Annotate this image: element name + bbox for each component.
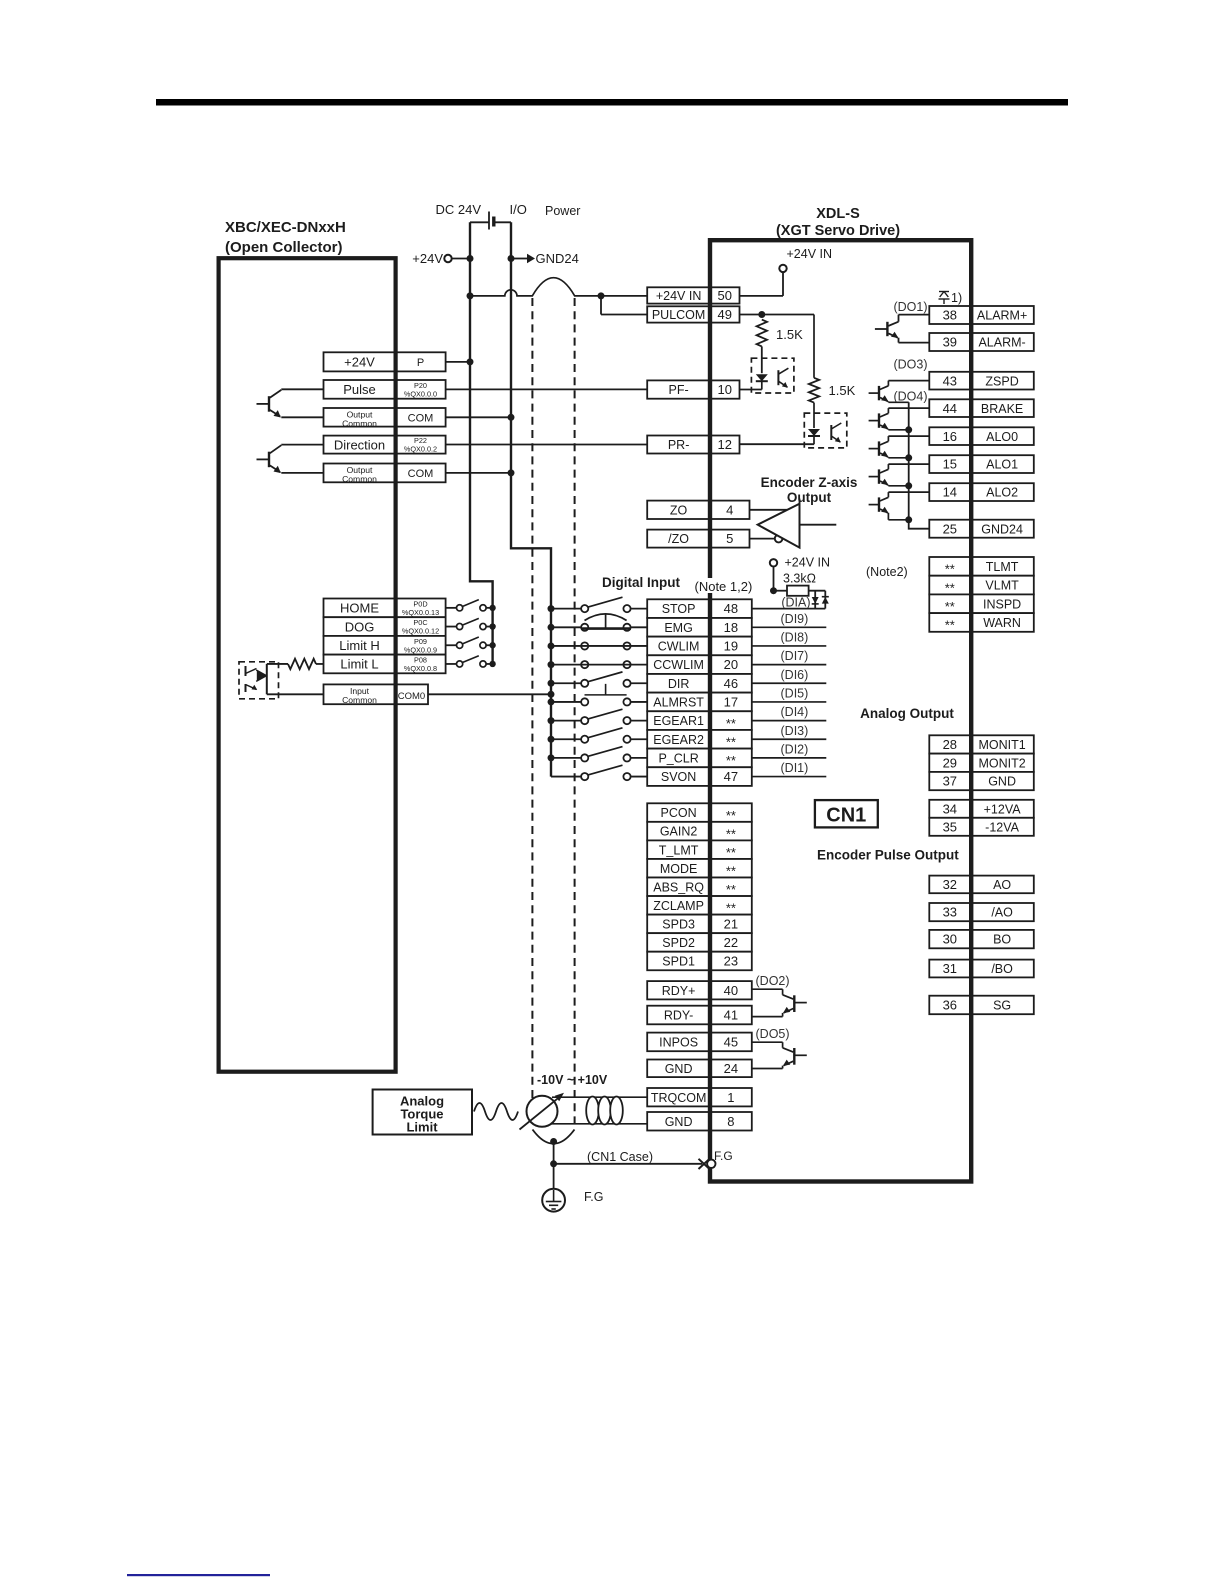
transistor Q3 (DO1 ALARM): [875, 315, 929, 343]
svg-text:1.5K: 1.5K: [829, 383, 856, 398]
servo pin box T_LMT **: [647, 840, 752, 859]
junction dot digital 24V: [770, 587, 777, 594]
switch EGEAR1: [551, 709, 647, 724]
svg-text:**: **: [726, 863, 736, 878]
transistor Q8 (ALO2): [869, 492, 930, 520]
svg-text:(DO3): (DO3): [893, 358, 927, 372]
servo pin box 16 ALO0: [929, 427, 1034, 445]
wire P to +24V rail: [446, 361, 470, 363]
wire rail +24V (left): [470, 222, 493, 664]
switch SVON: [551, 765, 647, 780]
servo pin box 28 MONIT1: [929, 735, 1034, 753]
svg-text:Limit: Limit: [406, 1120, 438, 1135]
svg-text:Limit L: Limit L: [340, 657, 378, 672]
PLC pin box Input Common / COM0: [324, 684, 429, 704]
svg-text:COM0: COM0: [398, 691, 425, 702]
svg-text:16: 16: [943, 429, 957, 444]
svg-text:TRQCOM: TRQCOM: [651, 1091, 707, 1105]
junction dot switch bus DOG: [489, 623, 495, 629]
svg-text:8: 8: [727, 1114, 734, 1129]
page bottom rule (blue): [127, 1574, 270, 1576]
servo pin box EGEAR2 **: [647, 730, 752, 749]
svg-text:COM: COM: [408, 413, 434, 425]
svg-text:37: 37: [943, 774, 957, 789]
svg-text:(DI3): (DI3): [781, 724, 809, 738]
svg-text:/BO: /BO: [991, 962, 1013, 976]
PLC pin box Limit L / P08: [324, 655, 446, 674]
servo pin box 30 BO: [929, 930, 1034, 948]
wire COM0 to bus: [428, 693, 551, 695]
svg-text:Direction: Direction: [334, 437, 385, 452]
wire digital input row 1 right: [752, 608, 826, 610]
svg-text:XDL-S: XDL-S: [816, 206, 860, 222]
wire GND24 arrow: [511, 258, 527, 260]
wire pin 50 to +24V IN terminal: [740, 295, 784, 297]
servo pin box +24V IN 50: [647, 287, 739, 303]
svg-text:Encoder Z-axis: Encoder Z-axis: [761, 475, 858, 490]
servo pin box 31 /BO: [929, 960, 1034, 978]
svg-text:50: 50: [718, 288, 732, 303]
svg-text:GAIN2: GAIN2: [660, 825, 698, 839]
junction dot emitter bus: [905, 516, 912, 523]
svg-text:GND: GND: [665, 1062, 693, 1076]
svg-text:Common: Common: [342, 474, 377, 484]
svg-text:RDY+: RDY+: [662, 984, 696, 998]
svg-text:(DI9): (DI9): [781, 612, 809, 626]
wire digital input row 6 right: [752, 701, 827, 703]
servo pin box 25 GND24: [929, 520, 1034, 538]
svg-text:1.5K: 1.5K: [776, 327, 803, 342]
svg-text:GND24: GND24: [536, 251, 579, 266]
Analog Torque Limit box: [373, 1090, 472, 1135]
svg-text:/AO: /AO: [991, 906, 1013, 920]
svg-text:STOP: STOP: [662, 602, 696, 616]
wire Direction to PR-: [446, 444, 648, 446]
wire PR- to PC2: [740, 443, 815, 445]
junction dot emitter bus: [905, 454, 912, 461]
svg-text:48: 48: [724, 601, 738, 616]
svg-text:**: **: [726, 753, 736, 768]
svg-text:(DI7): (DI7): [781, 649, 809, 663]
servo pin box /ZO 5: [647, 530, 749, 548]
optocoupler PC1 (PF-): [751, 358, 794, 393]
servo pin box ** TLMT: [929, 557, 1034, 576]
switch Limit L: [446, 656, 493, 667]
junction dot emitter bus: [905, 426, 912, 433]
svg-text:35: 35: [943, 819, 957, 834]
svg-text:MODE: MODE: [660, 862, 698, 876]
svg-text:(DI2): (DI2): [781, 742, 809, 756]
wire emitter bus to GND24 pin 25: [909, 402, 930, 528]
wire PF- to PC1: [740, 389, 762, 391]
svg-text:%QX0.0.12: %QX0.0.12: [402, 627, 439, 636]
servo pin box PCON **: [647, 803, 752, 822]
svg-text:ALO1: ALO1: [986, 458, 1018, 472]
battery DC24V wires: [470, 221, 489, 223]
svg-text:+12VA: +12VA: [984, 802, 1022, 816]
junction dot bus row 1: [548, 605, 555, 612]
svg-text:(DI8): (DI8): [781, 630, 809, 644]
svg-text:28: 28: [943, 737, 957, 752]
junction dot bus row 4: [548, 661, 555, 668]
svg-text:19: 19: [724, 639, 738, 654]
svg-text:(DI4): (DI4): [781, 705, 809, 719]
wire PULCOM out: [740, 314, 815, 316]
junction dot +24V rail: [467, 255, 474, 262]
svg-text:CN1: CN1: [826, 804, 866, 826]
svg-text:(DO5): (DO5): [756, 1027, 790, 1041]
junction dot FG branch: [550, 1160, 557, 1167]
svg-text:+24V IN: +24V IN: [656, 289, 702, 303]
svg-text:5: 5: [726, 531, 733, 546]
svg-text:ALMRST: ALMRST: [653, 696, 704, 710]
svg-text:SPD1: SPD1: [662, 955, 695, 969]
svg-text:I/O: I/O: [510, 202, 527, 217]
svg-text:P: P: [417, 357, 424, 369]
transistor Q4 (ZSPD): [869, 381, 930, 403]
svg-text:CWLIM: CWLIM: [658, 640, 700, 654]
switch Limit H: [446, 637, 493, 648]
cable screen dashed line right: [574, 298, 576, 1129]
servo pin box PF- 10: [647, 380, 739, 398]
battery plate short: [492, 217, 495, 227]
svg-text:BRAKE: BRAKE: [981, 402, 1023, 416]
PLC pin box Output Common / COM 1: [324, 408, 446, 427]
junction dot COM1: [508, 414, 515, 421]
battery plate long: [488, 212, 490, 230]
servo pin box 43 ZSPD: [929, 372, 1034, 390]
servo pin box 39 ALARM-: [929, 333, 1034, 351]
servo pin box 37 GND: [929, 772, 1034, 790]
svg-text:ZCLAMP: ZCLAMP: [653, 899, 704, 913]
analog signal squiggle: [474, 1103, 518, 1120]
svg-text:+24V IN: +24V IN: [785, 556, 831, 570]
svg-text:COM: COM: [408, 468, 434, 480]
servo pin box PR- 12: [647, 436, 739, 454]
svg-text:SVON: SVON: [661, 770, 696, 784]
servo pin box STOP 48: [647, 599, 752, 618]
servo pin box SVON 47: [647, 767, 752, 786]
servo pin box INPOS 45: [647, 1033, 752, 1052]
svg-text:EGEAR2: EGEAR2: [653, 733, 704, 747]
wire digital input row 9 right: [752, 757, 827, 759]
junction dot bus row 6: [548, 698, 555, 705]
connector label CN1 box: [815, 800, 878, 827]
servo pin box EMG 18: [647, 618, 752, 637]
wire digital input row 4 right: [752, 664, 827, 666]
servo pin box SPD3 21: [647, 915, 752, 934]
switch CWLIM (closed): [551, 642, 647, 649]
svg-text:**: **: [726, 845, 736, 860]
svg-text:1): 1): [951, 291, 962, 305]
svg-text:ALARM+: ALARM+: [977, 309, 1027, 323]
svg-text:**: **: [726, 808, 736, 823]
svg-text:TLMT: TLMT: [986, 560, 1019, 574]
switch HOME: [446, 600, 493, 611]
svg-text:45: 45: [724, 1035, 738, 1050]
svg-text:GND: GND: [665, 1115, 693, 1129]
svg-text:DOG: DOG: [345, 619, 375, 634]
servo pin box CWLIM 19: [647, 637, 752, 656]
line driver U1 triangle: [758, 504, 800, 548]
svg-text:GND24: GND24: [981, 522, 1023, 536]
svg-text:Analog Output: Analog Output: [860, 706, 954, 721]
svg-text:Common: Common: [342, 418, 377, 428]
svg-text:ZO: ZO: [670, 503, 688, 517]
cable screen dashed line left: [531, 298, 533, 1099]
servo pin box P_CLR **: [647, 749, 752, 768]
svg-text:%QX0.0.9: %QX0.0.9: [404, 645, 437, 654]
label (Note 1,2): [692, 578, 756, 593]
svg-text:ABS_RQ: ABS_RQ: [653, 880, 704, 894]
svg-text:41: 41: [724, 1008, 738, 1023]
svg-text:HOME: HOME: [340, 601, 379, 616]
junction dot COM0: [548, 691, 555, 698]
svg-text:INSPD: INSPD: [983, 597, 1021, 611]
svg-text:MONIT2: MONIT2: [978, 756, 1025, 770]
servo pin box 33 /AO: [929, 903, 1034, 921]
svg-text:**: **: [945, 580, 955, 595]
resistor R4 (Limit L): [288, 659, 316, 669]
junction dot bus row 3: [548, 642, 555, 649]
servo pin box ZO 4: [647, 501, 749, 519]
svg-text:**: **: [945, 618, 955, 633]
switch P_CLR: [551, 747, 647, 762]
wire R1 to opto: [761, 346, 763, 373]
svg-text:SG: SG: [993, 999, 1011, 1013]
wire driver output: [800, 524, 837, 526]
servo pin box RDY- 41: [647, 1006, 752, 1025]
servo pin box EGEAR1 **: [647, 711, 752, 730]
svg-text:(DO1): (DO1): [893, 300, 927, 314]
svg-text:24: 24: [724, 1061, 738, 1076]
svg-text:EMG: EMG: [664, 621, 692, 635]
wire PULCOM right branch down: [813, 315, 815, 378]
transistor Q6 (ALO0): [869, 436, 930, 458]
inverter bubble /ZO: [775, 535, 783, 543]
svg-text:GND: GND: [988, 775, 1016, 789]
switch CCWLIM (closed): [551, 661, 647, 668]
svg-text:(Note2): (Note2): [866, 565, 908, 579]
junction dot PULCOM: [758, 311, 765, 318]
svg-text:(DI6): (DI6): [781, 668, 809, 682]
svg-text:30: 30: [943, 932, 957, 947]
wire opto to Input Common: [267, 693, 324, 695]
junction dot switch bus Limit L: [489, 661, 495, 667]
junction dot bus row 2: [548, 624, 555, 631]
optocoupler PC3 (PLC input): [239, 662, 288, 699]
svg-text:INPOS: INPOS: [659, 1036, 698, 1050]
junction dot bus row 7: [548, 717, 555, 724]
wire PULCOM branch: [600, 296, 602, 315]
switch STOP: [551, 597, 647, 612]
wire digital input row 7 right: [752, 720, 827, 722]
svg-text:22: 22: [724, 935, 738, 950]
servo pin box ALMRST 17: [647, 693, 752, 712]
PLC enclosure XBC/XEC box: [219, 258, 396, 1071]
svg-text:(Open Collector): (Open Collector): [225, 239, 343, 256]
servo pin box PULCOM 49: [647, 306, 739, 322]
potentiometer VR1: [520, 1093, 565, 1130]
transistor Q10 (DO5 INPOS): [752, 1042, 807, 1068]
svg-text:-10V ~ +10V: -10V ~ +10V: [537, 1073, 608, 1087]
svg-text:**: **: [726, 734, 736, 749]
transistor Q9 (DO2 RDY): [752, 989, 807, 1016]
svg-text:43: 43: [943, 373, 957, 388]
servo pin box 44 BRAKE: [929, 399, 1034, 417]
servo pin box ** VLMT: [929, 576, 1034, 595]
svg-text:Power: Power: [545, 204, 580, 218]
svg-text:MONIT1: MONIT1: [978, 738, 1025, 752]
switch ALMRST (pushbutton): [551, 698, 647, 705]
wire pot to TRQCOM: [552, 1096, 647, 1098]
svg-text:(DIA): (DIA): [781, 596, 810, 610]
svg-text:P_CLR: P_CLR: [658, 752, 698, 766]
servo pin box ** WARN: [929, 613, 1034, 632]
svg-text:DC 24V: DC 24V: [435, 202, 481, 217]
svg-text:WARN: WARN: [983, 616, 1021, 630]
servo enclosure XDL-S box: [710, 240, 971, 1181]
svg-text:+24V: +24V: [412, 251, 443, 266]
svg-text:Digital Input: Digital Input: [602, 575, 680, 590]
wire shield to ground: [553, 1141, 555, 1189]
svg-text:F.G: F.G: [714, 1149, 733, 1163]
twisted pair loops: [586, 1097, 623, 1125]
wire ZO to driver: [750, 509, 788, 511]
svg-text:**: **: [726, 716, 736, 731]
resistor R1 1.5K: [757, 320, 767, 347]
svg-text:Pulse: Pulse: [343, 382, 376, 397]
svg-text:32: 32: [943, 877, 957, 892]
wire digital 24V down: [773, 567, 775, 591]
junction dot emitter bus: [905, 482, 912, 489]
PLC pin box DOG / P0C: [324, 617, 446, 636]
wire digital input row 5 right: [752, 682, 827, 684]
servo pin box 34 +12VA: [929, 800, 1034, 818]
svg-text:(XGT Servo Drive): (XGT Servo Drive): [776, 223, 900, 239]
switch DOG: [446, 618, 493, 629]
junction dot switch bus HOME: [489, 605, 495, 611]
svg-text:DIR: DIR: [668, 677, 690, 691]
svg-text:10: 10: [718, 382, 732, 397]
svg-text:20: 20: [724, 657, 738, 672]
svg-text:21: 21: [724, 916, 738, 931]
wire +24V to rail: [452, 258, 470, 260]
earth ground FG symbol: [542, 1189, 565, 1212]
svg-text:Limit H: Limit H: [339, 638, 379, 653]
svg-text:ALARM-: ALARM-: [978, 336, 1025, 350]
wire +24V IN feed with hop and cable loop: [470, 278, 647, 296]
svg-text:ZSPD: ZSPD: [985, 374, 1018, 388]
svg-text:(DO4): (DO4): [893, 390, 927, 404]
svg-text:12: 12: [718, 437, 732, 452]
servo pin box CCWLIM 20: [647, 655, 752, 674]
svg-text:18: 18: [724, 620, 738, 635]
switch EMG (mushroom NC): [551, 614, 647, 631]
svg-text:**: **: [726, 901, 736, 916]
svg-text:Output: Output: [787, 490, 832, 505]
FG terminal circle on servo border: [707, 1160, 715, 1168]
svg-text:**: **: [726, 826, 736, 841]
svg-text:SPD3: SPD3: [662, 917, 695, 931]
svg-text:40: 40: [724, 983, 738, 998]
label 주1): [939, 291, 963, 305]
switch EGEAR2: [551, 728, 647, 743]
svg-text:33: 33: [943, 905, 957, 920]
servo pin box SPD2 22: [647, 933, 752, 952]
junction dot bus row 8: [548, 736, 555, 743]
svg-text:CCWLIM: CCWLIM: [653, 658, 704, 672]
svg-text:(Note 1,2): (Note 1,2): [695, 579, 753, 594]
terminal +24V IN circle: [779, 265, 786, 272]
servo pin box ABS_RQ **: [647, 878, 752, 897]
svg-text:+24V: +24V: [344, 355, 375, 370]
servo pin box GND 8: [647, 1112, 752, 1131]
servo pin box 38 ALARM+: [929, 306, 1034, 324]
servo pin box ZCLAMP **: [647, 896, 752, 915]
transistor Q7 (ALO1): [869, 464, 930, 486]
svg-text:/ZO: /ZO: [668, 532, 689, 546]
terminal +24V IN (digital) circle: [770, 559, 777, 566]
servo pin box GAIN2 **: [647, 822, 752, 841]
svg-text:49: 49: [718, 307, 732, 322]
resistor R2 1.5K: [809, 378, 819, 403]
svg-text:34: 34: [943, 801, 957, 816]
wire to R3: [774, 590, 788, 592]
svg-text:25: 25: [943, 521, 957, 536]
servo pin box 36 SG: [929, 996, 1034, 1015]
svg-text:31: 31: [943, 961, 957, 976]
svg-text:46: 46: [724, 676, 738, 691]
wire FG to CN1 case: [554, 1163, 702, 1165]
wire digital input row 3 right: [752, 645, 827, 647]
terminal +24V circle: [444, 255, 451, 262]
servo pin box 15 ALO1: [929, 455, 1034, 473]
svg-text:44: 44: [943, 401, 957, 416]
svg-text:%QX0.0.8: %QX0.0.8: [404, 664, 437, 673]
servo pin box SPD1 23: [647, 952, 752, 971]
wire digital input row 10 right: [752, 776, 827, 778]
PLC pin box +24V / P: [324, 352, 446, 371]
svg-text:23: 23: [724, 954, 738, 969]
junction dot feed at rail: [467, 292, 474, 299]
svg-text:17: 17: [724, 695, 738, 710]
wire rail GND24 (right): [511, 222, 551, 776]
servo pin box 14 ALO2: [929, 483, 1034, 501]
svg-text:+24V IN: +24V IN: [787, 247, 833, 261]
junction dot bus row 9: [548, 754, 555, 761]
svg-text:EGEAR1: EGEAR1: [653, 714, 704, 728]
servo pin box RDY+ 40: [647, 981, 752, 999]
wire digital input row 2 right: [752, 626, 827, 628]
junction dot GND24 rail: [508, 255, 515, 262]
svg-text:47: 47: [724, 769, 738, 784]
svg-text:14: 14: [943, 485, 957, 500]
svg-text:PF-: PF-: [669, 383, 689, 397]
svg-text:%QX0.0.2: %QX0.0.2: [404, 445, 437, 454]
svg-text:(DI1): (DI1): [781, 761, 809, 775]
wire R2 to opto: [813, 403, 815, 428]
servo pin box 29 MONIT2: [929, 754, 1034, 772]
driver top stub: [799, 499, 801, 504]
transistor Q2 (Direction open collector): [257, 445, 324, 474]
servo pin box TRQCOM 1: [647, 1088, 752, 1106]
svg-text:SPD2: SPD2: [662, 936, 695, 950]
wire COM2 to GND24 rail: [446, 472, 511, 474]
junction dot COM2: [508, 469, 515, 476]
junction dot shield: [550, 1138, 557, 1145]
transistor Q5 (BRAKE): [869, 408, 930, 430]
